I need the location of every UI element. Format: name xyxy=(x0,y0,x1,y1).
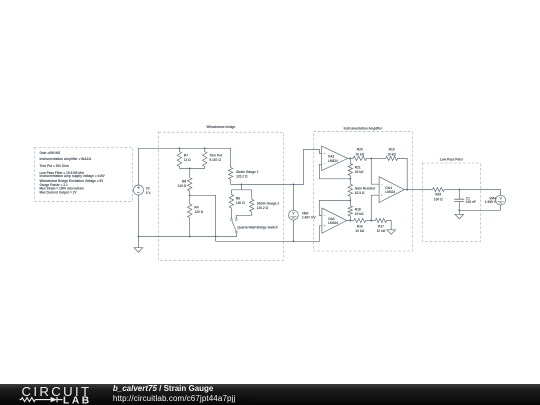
trim pot resistor xyxy=(203,152,207,167)
resistor R8 xyxy=(230,190,232,195)
node R24-C1 xyxy=(458,189,460,191)
svg-text:+: + xyxy=(323,152,325,156)
svg-text:Instrumentation Amplifier = IN: Instrumentation Amplifier = INA111 xyxy=(40,157,92,161)
node rail-TrimPot xyxy=(204,147,206,149)
svg-text:LM324: LM324 xyxy=(328,159,338,163)
node V2-ground rail xyxy=(137,235,139,237)
voltmeter VM0 xyxy=(289,210,299,220)
svg-text:120 Ω: 120 Ω xyxy=(194,210,203,214)
svg-text:100 Ω: 100 Ω xyxy=(434,197,443,201)
svg-text:120.2 Ω: 120.2 Ω xyxy=(257,206,269,210)
svg-text:20 kΩ: 20 kΩ xyxy=(355,212,364,216)
svg-text:11 Ω: 11 Ω xyxy=(184,158,191,162)
wire to OA3 plus input xyxy=(216,226,322,242)
annotation text xyxy=(40,151,106,194)
wire bridge right output xyxy=(231,149,322,184)
capacitor C1 xyxy=(458,190,460,200)
svg-text:Quarter/Half Bridge Switch: Quarter/Half Bridge Switch xyxy=(237,226,278,230)
node OA3 fb xyxy=(349,199,351,201)
voltmeter VM4 xyxy=(496,195,506,205)
svg-text:LM324: LM324 xyxy=(328,221,338,225)
svg-text:Max Desired Output = 2V: Max Desired Output = 2V xyxy=(40,190,78,194)
ground under R17 xyxy=(387,230,396,235)
wire bridge left output xyxy=(190,195,216,241)
svg-text:+: + xyxy=(381,193,383,197)
op-amp OA3 xyxy=(322,208,347,233)
wire branch to R8/SG2 xyxy=(240,184,242,189)
svg-text:R19: R19 xyxy=(389,148,395,152)
node VM0 top xyxy=(292,183,294,185)
wire OA3 output xyxy=(347,220,354,222)
svg-text:Gain =600.961: Gain =600.961 xyxy=(40,151,61,155)
node bridge left output xyxy=(189,194,191,196)
node OA3 out xyxy=(349,220,351,222)
wire OA2 output xyxy=(348,157,354,159)
svg-text:100 nF: 100 nF xyxy=(466,200,476,204)
resistor R17 xyxy=(371,220,375,222)
svg-text:10 kΩ: 10 kΩ xyxy=(377,229,386,233)
switch contact left xyxy=(231,219,233,221)
svg-text:R7: R7 xyxy=(184,154,188,158)
svg-text:10 kΩ: 10 kΩ xyxy=(355,229,364,233)
footer bar xyxy=(0,384,540,405)
voltage source V2 xyxy=(133,185,143,195)
node R20-R19 xyxy=(370,157,372,159)
svg-text:R6: R6 xyxy=(182,180,186,184)
svg-text:Gain Resistor: Gain Resistor xyxy=(355,186,376,190)
svg-text:Strain Gauge 2: Strain Gauge 2 xyxy=(257,201,280,205)
wire to OA4 plus xyxy=(371,195,379,220)
svg-text:http://circuitlab.com/c67jpt44: http://circuitlab.com/c67jpt44a7pjj xyxy=(113,394,236,403)
node R4-ground rail xyxy=(189,235,191,237)
svg-text:R18: R18 xyxy=(355,207,361,211)
wire VM4 bottom xyxy=(459,205,500,210)
op-amp OA2 xyxy=(322,146,348,171)
node mid parallel xyxy=(189,167,191,169)
node branch down xyxy=(240,183,242,185)
op-amp OA4 xyxy=(379,177,404,203)
resistor R18 xyxy=(349,200,351,205)
Low Pass Filter box xyxy=(422,163,480,241)
svg-text:62.5 Ω: 62.5 Ω xyxy=(355,191,365,195)
svg-text:Strain Gauge 1: Strain Gauge 1 xyxy=(236,170,259,174)
CircuitLab logo resistor-diode line xyxy=(20,398,51,402)
svg-text:Wheatstone bridge: Wheatstone bridge xyxy=(207,125,236,129)
svg-text:V2: V2 xyxy=(146,186,150,190)
wire R7/TrimPot bottoms xyxy=(179,167,204,169)
node VM0 bottom xyxy=(292,240,294,242)
wire ground rail xyxy=(138,233,237,237)
resistor R19 xyxy=(371,157,385,159)
svg-text:b_calvert75 / Strain Gauge: b_calvert75 / Strain Gauge xyxy=(113,384,214,393)
svg-text:R24: R24 xyxy=(435,193,441,197)
switch contact right xyxy=(235,219,237,221)
resistor R24 xyxy=(433,188,445,192)
svg-text:Instrumentation Amp supply vol: Instrumentation Amp supply voltage = ±15… xyxy=(40,174,106,178)
Instrumentation Amplifier box xyxy=(314,132,413,251)
wire V2 top to rail xyxy=(137,148,139,185)
node R16-R17 xyxy=(370,220,372,222)
resistor R6 xyxy=(189,168,191,177)
wire top rail xyxy=(138,147,230,149)
svg-text:LAB: LAB xyxy=(63,395,92,405)
svg-text:Instrumentation Amplifier: Instrumentation Amplifier xyxy=(344,126,383,130)
svg-text:20 kΩ: 20 kΩ xyxy=(355,170,364,174)
ground under V2 xyxy=(134,248,143,253)
svg-text:119 Ω: 119 Ω xyxy=(178,184,187,188)
node cross ground rail xyxy=(215,235,217,237)
svg-text:R21: R21 xyxy=(355,166,361,170)
svg-text:−: − xyxy=(324,214,326,218)
svg-text:Trim Pot = 200 Ohm: Trim Pot = 200 Ohm xyxy=(40,164,70,168)
svg-text:−: − xyxy=(381,182,383,186)
svg-text:−: − xyxy=(323,162,325,166)
node C1-ground xyxy=(458,209,460,211)
resistor R21 xyxy=(349,158,351,163)
strain gauge 2 xyxy=(251,190,253,199)
svg-text:Low Pass Filter: Low Pass Filter xyxy=(440,158,464,162)
svg-text:120 Ω: 120 Ω xyxy=(236,201,245,205)
svg-text:+: + xyxy=(324,224,326,228)
svg-text:10 kΩ: 10 kΩ xyxy=(355,152,364,156)
node OA2 out xyxy=(349,157,351,159)
svg-text:R4: R4 xyxy=(194,206,198,210)
resistor R4 xyxy=(189,195,191,204)
ground under C1 xyxy=(455,214,464,219)
resistor R7 xyxy=(177,152,181,167)
strain gauge 1 xyxy=(230,148,232,167)
node OA2 fb xyxy=(349,178,351,180)
wire OA2 feedback xyxy=(319,164,350,179)
Wheatstone bridge box xyxy=(159,132,284,260)
svg-text:R20: R20 xyxy=(357,148,363,152)
switch common contact xyxy=(236,231,238,233)
node OA4 out xyxy=(406,189,408,191)
svg-text:Trim Pot: Trim Pot xyxy=(209,154,223,158)
wire VM0 bottom lead xyxy=(292,220,294,241)
wire to OA4 minus xyxy=(371,158,379,184)
node rail-R7 xyxy=(178,147,180,149)
wire node to VM4 xyxy=(459,190,500,196)
svg-text:R16: R16 xyxy=(357,225,363,229)
svg-text:R17: R17 xyxy=(378,225,384,229)
resistor R16 xyxy=(354,218,366,222)
svg-text:R8: R8 xyxy=(236,197,240,201)
wire OA3 feedback xyxy=(319,200,350,215)
gain resistor xyxy=(349,179,351,185)
wire OA4 output xyxy=(404,189,432,191)
svg-text:9.167 Ω: 9.167 Ω xyxy=(209,158,221,162)
wire VM0 top lead xyxy=(292,184,294,210)
switch lever xyxy=(232,221,236,232)
svg-text:LM324: LM324 xyxy=(385,190,395,194)
svg-text:10 kΩ: 10 kΩ xyxy=(387,152,396,156)
resistor R20 xyxy=(353,156,366,160)
wire C1 to ground xyxy=(458,210,460,214)
svg-text:1.999 V: 1.999 V xyxy=(485,200,497,204)
annotation box xyxy=(35,148,133,202)
svg-text:120.2 Ω: 120.2 Ω xyxy=(236,175,248,179)
svg-text:2.497 mV: 2.497 mV xyxy=(302,215,317,219)
wire V2 bottom xyxy=(137,195,139,248)
